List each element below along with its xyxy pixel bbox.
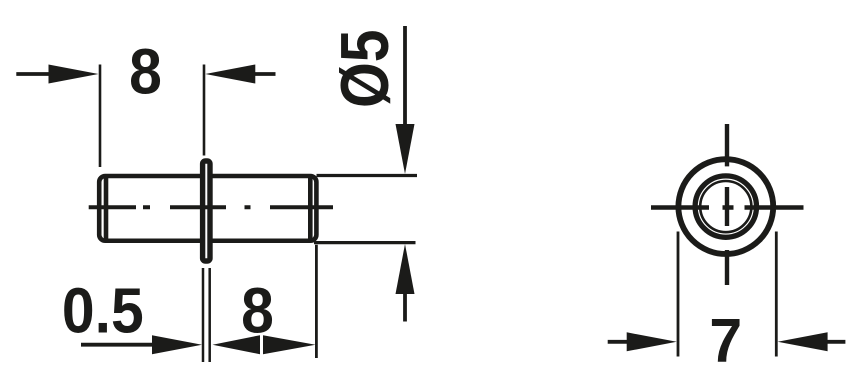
front view middle circle — [695, 176, 756, 237]
collar right extension line — [208, 268, 211, 362]
right chamfer line — [308, 176, 313, 241]
dim 8 top: left extension line — [99, 65, 102, 168]
pin body outline — [99, 176, 316, 241]
front view horizontal centerline — [651, 205, 804, 209]
svg-text:7: 7 — [709, 306, 742, 376]
collar left extension line — [202, 268, 205, 362]
left chamfer line — [104, 176, 109, 241]
dim diameter 5: top leader line — [317, 174, 418, 177]
dim 8 top: left arrow shaft — [16, 72, 52, 76]
dim diameter 5: lower arrowhead — [396, 244, 415, 294]
dim 8 top: right arrowhead — [205, 65, 255, 84]
front view vertical centerline — [725, 124, 729, 285]
dim diameter 5: upper arrowhead — [396, 124, 415, 174]
dim diameter 5: upper dim line — [403, 26, 407, 128]
dim 7: right arrow shaft — [825, 340, 845, 344]
dim 7: left arrowhead — [627, 332, 677, 351]
front view inner circle — [700, 181, 751, 232]
dim 8 top: right extension line — [203, 65, 206, 156]
svg-text:8: 8 — [129, 36, 162, 108]
svg-text:8: 8 — [241, 275, 274, 347]
dim 8 bottom: right extension line — [315, 245, 318, 358]
front view outer circle — [678, 159, 773, 254]
dim 7: left arrow shaft — [608, 340, 630, 344]
svg-text:0.5: 0.5 — [62, 275, 144, 347]
dim 8 top: right arrow shaft — [253, 72, 276, 76]
dim 8 bottom: right arrowhead — [263, 335, 316, 354]
dim 8 bottom: left arrowhead — [213, 335, 261, 354]
dim 7: right extension line — [775, 232, 778, 357]
dim 0.5: shaft — [81, 343, 156, 347]
dim diameter 5: lower dim line — [403, 292, 407, 322]
dim 7: right arrowhead — [778, 332, 828, 351]
dim 7: left extension line — [677, 232, 680, 357]
collar — [203, 161, 210, 261]
dim 0.5: arrowhead — [152, 335, 202, 354]
dim diameter 5: bottom leader line — [314, 241, 416, 244]
centerline side view — [89, 205, 333, 209]
svg-text:Ø5: Ø5 — [328, 29, 403, 108]
dim 8 top: left arrowhead — [49, 65, 99, 84]
